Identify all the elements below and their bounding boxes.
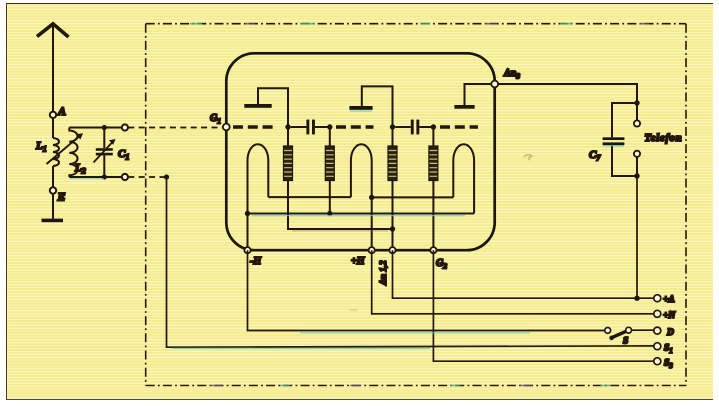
wire tank bottom	[69, 176, 121, 178]
wire L1 to E	[52, 166, 54, 187]
terminal circle bottom coupling	[122, 174, 128, 180]
node telefon bottom	[634, 173, 639, 178]
wire heater rail b	[372, 196, 454, 198]
wire dashed tank to G1	[128, 127, 222, 129]
wire An12 to +A	[393, 250, 654, 298]
svg-text:G2: G2	[436, 258, 447, 271]
wire An3 to telefon	[498, 84, 637, 103]
node bend	[164, 174, 169, 179]
node tank bottom	[102, 174, 107, 179]
filament F1	[248, 144, 269, 250]
wire antenna lead-in	[52, 26, 54, 112]
svg-text:S: S	[623, 337, 628, 347]
wire to S1 terminal	[167, 177, 654, 347]
wire A to L1	[52, 118, 54, 138]
chassis dash-dot border	[146, 24, 686, 386]
ground	[42, 219, 64, 223]
terminal +N	[654, 310, 661, 317]
terminal S3	[654, 358, 661, 365]
svg-text:S3: S3	[664, 359, 673, 371]
terminal circle top coupling	[122, 124, 128, 130]
wire E to ground	[52, 194, 54, 219]
node G2i	[327, 124, 332, 129]
border tint dashes	[190, 24, 649, 386]
resistor Rg3	[429, 127, 438, 181]
node E	[50, 187, 56, 193]
wire heater rail a	[268, 196, 351, 198]
capacitor C coupling 1	[291, 126, 307, 128]
node An rail	[390, 226, 395, 231]
triode 1 anode	[244, 104, 271, 108]
node +H junction	[369, 195, 374, 200]
grid 3	[440, 125, 478, 128]
pin An3	[491, 81, 498, 88]
capacitor C coupling 2	[395, 126, 411, 128]
svg-text:A: A	[57, 104, 66, 118]
filament F2	[351, 144, 372, 250]
svg-text:E: E	[57, 190, 66, 204]
pin -H	[244, 247, 250, 253]
grid 2	[336, 125, 374, 128]
node A	[50, 112, 56, 118]
svg-text:C7: C7	[589, 149, 601, 163]
coil L2	[69, 128, 77, 178]
scan colour artifacts	[70, 111, 624, 348]
resistor Ra2	[388, 146, 397, 181]
terminal +A	[654, 295, 661, 302]
wire Rg3 down to pin G2	[432, 181, 434, 251]
pin G1	[223, 124, 230, 131]
grid 1	[233, 125, 274, 128]
resistor Rg2	[325, 127, 334, 181]
antenna	[37, 24, 69, 37]
switch S	[605, 328, 611, 334]
capacitor C2	[612, 103, 637, 137]
node G3i	[431, 124, 436, 129]
filament F3	[453, 144, 474, 213]
node +A junction	[634, 296, 639, 301]
node A2	[390, 124, 395, 129]
wire telefon to +A	[636, 176, 638, 298]
triode 2 anode	[349, 106, 372, 110]
svg-text:An 1,2: An 1,2	[378, 260, 388, 286]
wire Ra2 down to pin An12	[392, 181, 394, 251]
wire dashed tank bottom	[128, 176, 164, 178]
wire +H to +N	[372, 250, 654, 314]
terminal S1	[654, 343, 661, 350]
wire cathode rail	[248, 213, 475, 215]
triode 3 anode	[454, 105, 474, 109]
pin G2	[430, 247, 436, 253]
svg-text:+H: +H	[351, 256, 366, 267]
svg-text:Telefon: Telefon	[645, 133, 683, 144]
wire Ra1 to An rail	[288, 181, 393, 230]
svg-text:+A: +A	[663, 295, 675, 305]
svg-text:S1: S1	[664, 344, 673, 356]
paper smudges	[349, 155, 532, 310]
wire Rg2 to cathode rail	[329, 181, 331, 214]
telefon jack	[636, 103, 638, 120]
node telefon top	[634, 100, 639, 105]
svg-text:C1: C1	[118, 148, 129, 162]
terminal D	[654, 327, 661, 334]
node tank top	[102, 125, 107, 130]
tube envelope	[226, 53, 494, 250]
wire -H to switch	[248, 250, 605, 330]
capacitor C1 (variable)	[103, 128, 105, 149]
coil L1 (variable, arrow)	[53, 138, 59, 166]
wire tank top	[69, 127, 121, 129]
wire G2 to S3	[433, 250, 653, 361]
node A1	[285, 124, 290, 129]
svg-text:L2: L2	[74, 162, 86, 176]
svg-text:G1: G1	[210, 113, 221, 126]
svg-text:An3: An3	[503, 68, 520, 81]
svg-text:L1: L1	[35, 140, 47, 154]
pin +H	[369, 247, 375, 253]
pin An12	[389, 247, 395, 253]
resistor Ra1	[284, 146, 293, 181]
svg-text:D: D	[666, 328, 674, 338]
svg-text:+N: +N	[663, 311, 676, 321]
svg-text:-H: -H	[250, 256, 262, 267]
node -H junction	[245, 211, 250, 216]
